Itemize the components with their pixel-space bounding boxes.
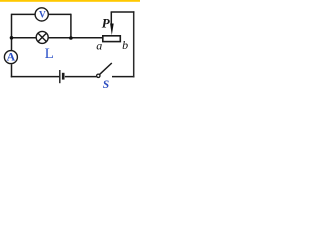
- battery long plate: [59, 70, 61, 83]
- yellow header strip: [0, 0, 140, 2]
- ammeter circle: [4, 51, 17, 64]
- svg-text:a: a: [96, 38, 102, 52]
- background: [0, 0, 140, 89]
- wire: battery to switch: [65, 76, 97, 78]
- wire: left vertical (top corner to ammeter top): [11, 14, 13, 51]
- wire: switch to right corner: [112, 76, 135, 78]
- voltmeter U: circle: [35, 8, 48, 21]
- svg-text:A: A: [6, 50, 15, 64]
- svg-text:L: L: [45, 46, 54, 62]
- wire: bottom left segment to battery: [11, 76, 59, 78]
- lamp L: circle: [36, 31, 48, 43]
- wire: right side of voltmeter loop: [70, 14, 72, 38]
- svg-text:V: V: [39, 11, 46, 21]
- switch blade: [100, 63, 112, 74]
- rheostat body R: [103, 36, 121, 42]
- rheostat slider arrow: [110, 24, 114, 36]
- svg-text:b: b: [122, 38, 128, 52]
- node: junction dot left: [10, 36, 14, 40]
- ammeter: wire below to bottom wire: [11, 64, 13, 77]
- wire: right vertical: [133, 11, 135, 77]
- wire: voltmeter loop top: [12, 13, 71, 15]
- switch S: pivot circle: [97, 74, 100, 77]
- node: junction dot right: [69, 36, 73, 40]
- svg-text:P: P: [102, 16, 111, 31]
- rheostat slider stem: [110, 12, 112, 25]
- lamp cross: [38, 33, 47, 42]
- wire: lamp branch horizontal: [12, 37, 103, 39]
- wire: top right horizontal: [111, 11, 135, 13]
- battery short plate: [62, 73, 65, 80]
- svg-text:S: S: [103, 79, 109, 89]
